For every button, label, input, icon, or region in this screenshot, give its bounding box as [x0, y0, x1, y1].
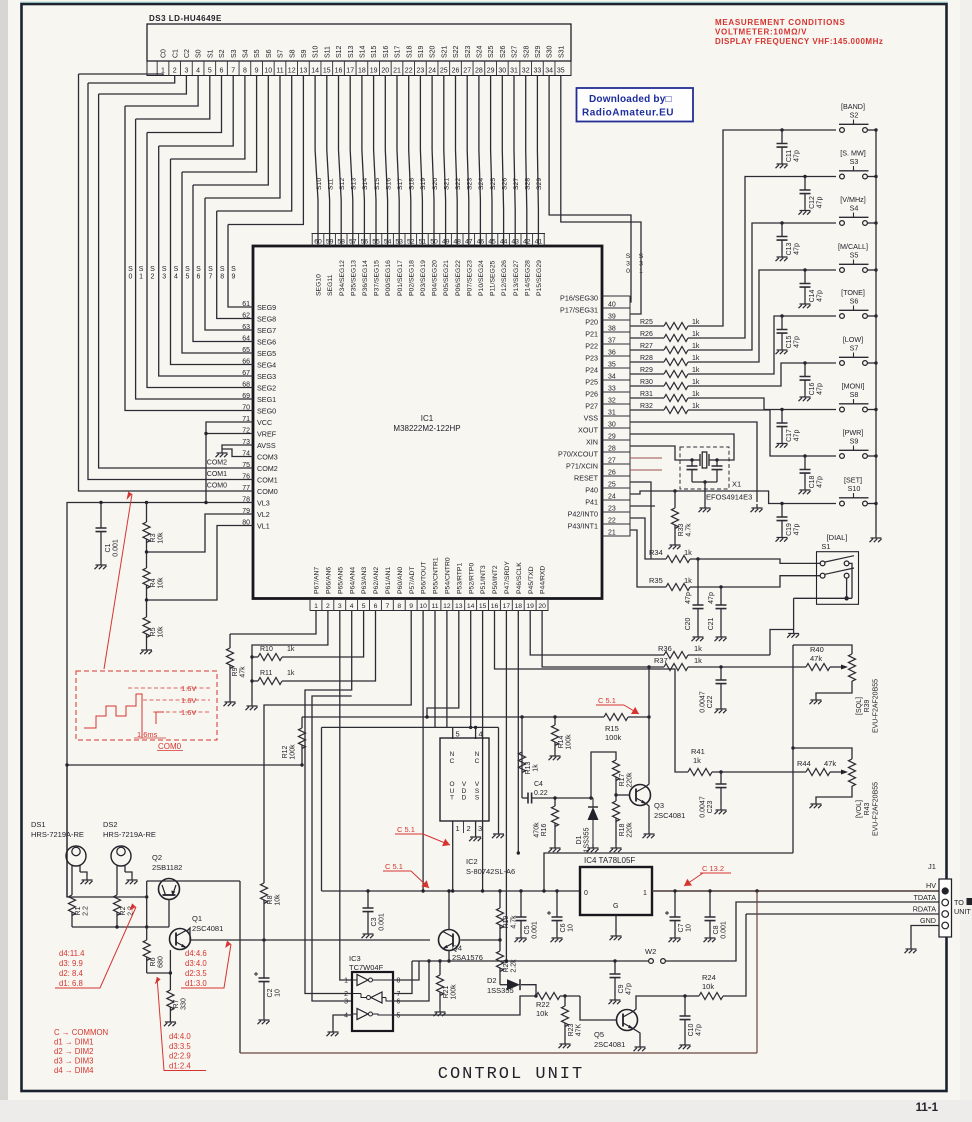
- svg-text:R29: R29: [640, 367, 653, 374]
- svg-text:1k: 1k: [287, 670, 295, 677]
- wire R25 to S2: [688, 130, 836, 326]
- svg-text:S9: S9: [301, 49, 308, 58]
- resistor R24 10k: [685, 995, 699, 997]
- LCD pin cell divider: [554, 61, 556, 76]
- svg-text:d2:3.5: d2:3.5: [185, 969, 207, 978]
- resistor R9 47k: [229, 634, 231, 648]
- svg-text:SEG0: SEG0: [257, 407, 276, 416]
- red arrow block2 to Q1 collector: [225, 941, 231, 949]
- svg-text:R13: R13: [525, 761, 532, 774]
- svg-text:DISPLAY FREQUENCY VHF:145.000M: DISPLAY FREQUENCY VHF:145.000MHz: [715, 37, 883, 46]
- svg-text:35: 35: [608, 362, 616, 369]
- svg-text:R8: R8: [267, 895, 274, 904]
- ground Q3: [643, 830, 655, 838]
- svg-text:P71/XCIN: P71/XCIN: [566, 462, 598, 471]
- resistor R16 470k: [554, 798, 556, 806]
- wire S14 bus: [362, 76, 365, 247]
- svg-text:C 5.1: C 5.1: [385, 862, 403, 871]
- svg-text:VSS: VSS: [475, 781, 480, 802]
- svg-text:S14: S14: [362, 178, 369, 190]
- ground R7: [164, 1018, 176, 1026]
- svg-text:S31: S31: [558, 45, 565, 58]
- svg-text:VL1: VL1: [257, 522, 270, 531]
- resistor R12 100k: [302, 716, 310, 718]
- wire S11 bus: [327, 76, 330, 247]
- wire C4 branch vertical: [521, 717, 523, 798]
- wire S20 bus: [432, 76, 434, 247]
- svg-text:P24: P24: [585, 366, 598, 375]
- resistor R22 10k: [536, 993, 560, 1000]
- wire AVSS: [222, 445, 253, 449]
- transistor Q4 2SA1576: [439, 930, 460, 951]
- ground R16: [549, 844, 561, 852]
- svg-text:1k: 1k: [694, 644, 702, 653]
- svg-text:100k: 100k: [566, 734, 573, 750]
- svg-text:19: 19: [370, 67, 378, 74]
- COM rail y765: [67, 764, 302, 766]
- svg-text:37: 37: [608, 338, 616, 345]
- switch S1 arms: [825, 556, 854, 562]
- svg-text:P10/SEG24: P10/SEG24: [478, 260, 485, 296]
- svg-text:SEG2: SEG2: [257, 384, 276, 393]
- svg-text:39: 39: [608, 314, 616, 321]
- wire pin1 to R9: [230, 611, 316, 635]
- ground J1: [905, 945, 917, 953]
- bottom return rail: [240, 1052, 757, 1054]
- node VDD rail junction: [481, 889, 484, 892]
- svg-text:R12: R12: [282, 745, 289, 758]
- LCD pin cell divider: [531, 61, 533, 76]
- svg-text:R40: R40: [810, 645, 824, 654]
- svg-text:47p: 47p: [794, 243, 801, 255]
- svg-text:10: 10: [264, 67, 272, 74]
- wire DS2 left leg to R2: [116, 872, 118, 895]
- wire R28 to S5: [688, 270, 836, 362]
- wire pin19 to R36: [530, 611, 664, 656]
- svg-text:S2: S2: [150, 266, 155, 280]
- wire R10 to pin5: [282, 611, 364, 658]
- svg-text:C2: C2: [267, 988, 274, 997]
- capacitor C12 47p: [803, 175, 806, 178]
- svg-text:P12/SEG26: P12/SEG26: [501, 260, 508, 296]
- svg-text:C16: C16: [809, 382, 816, 395]
- capacitor C22 0.0047: [720, 667, 722, 680]
- LCD pin cell divider: [402, 61, 404, 76]
- ground R18: [610, 844, 622, 852]
- wire R11 to pin6: [282, 611, 376, 682]
- node Q3 collector junction: [647, 665, 650, 668]
- IC2 pin2 ground lead: [475, 821, 477, 833]
- svg-text:P55/CNTR1: P55/CNTR1: [433, 557, 440, 594]
- waveform staircase: [84, 694, 164, 738]
- svg-text:S21: S21: [443, 178, 450, 190]
- IC1 right pin cell strip: [629, 296, 631, 537]
- svg-text:GND: GND: [920, 916, 936, 925]
- svg-text:3: 3: [338, 603, 342, 610]
- ground C11: [776, 160, 788, 168]
- svg-text:d1: 6.8: d1: 6.8: [59, 979, 83, 988]
- svg-text:R17: R17: [619, 773, 626, 786]
- ground C10: [679, 1041, 691, 1049]
- svg-text:12: 12: [443, 603, 451, 610]
- svg-text:S15: S15: [374, 178, 381, 190]
- svg-text:35: 35: [557, 67, 565, 74]
- svg-text:C 5.1: C 5.1: [397, 825, 415, 834]
- svg-text:1k: 1k: [692, 391, 700, 398]
- svg-text:47p: 47p: [794, 524, 801, 536]
- svg-text:47p: 47p: [817, 383, 824, 395]
- svg-text:S9: S9: [850, 437, 859, 446]
- svg-text:5: 5: [456, 730, 460, 739]
- node R19/R20 junction: [498, 938, 501, 941]
- svg-text:P23: P23: [585, 354, 598, 363]
- wire LCD pin 12 (S8) staircase: [217, 76, 292, 212]
- ground C23: [715, 806, 727, 814]
- wire LCD pin 2 (C1) staircase: [88, 76, 175, 84]
- node rail A C4 branch junction: [520, 715, 523, 718]
- svg-text:P63/AN3: P63/AN3: [361, 567, 368, 594]
- LCD pin cell divider: [180, 61, 182, 76]
- svg-text:1: 1: [643, 890, 647, 897]
- svg-text:S10: S10: [313, 45, 320, 58]
- svg-text:XOUT: XOUT: [578, 426, 599, 435]
- svg-text:COM2: COM2: [257, 464, 278, 473]
- svg-text:16: 16: [491, 603, 499, 610]
- transistor Q1 2SC4081: [170, 929, 191, 950]
- LCD pin cell divider: [215, 61, 217, 76]
- svg-text:VDD: VDD: [462, 781, 467, 802]
- LCD pin cell divider: [203, 61, 205, 76]
- svg-text:P40: P40: [585, 486, 598, 495]
- wire R37 to R40: [688, 666, 806, 668]
- wire DS2 right leg to ground: [125, 872, 132, 876]
- wire pin4 to IC3 pin2: [305, 611, 352, 994]
- svg-text:[DIAL]: [DIAL]: [827, 533, 848, 542]
- svg-text:d2:2.9: d2:2.9: [169, 1052, 191, 1061]
- svg-text:47k: 47k: [824, 759, 836, 768]
- IC1 bottom pin number strip: [310, 610, 549, 612]
- svg-text:R2: R2: [120, 906, 127, 915]
- wire P70/XCOUT stub: [630, 457, 662, 459]
- transistor Q3 2SC4081: [630, 785, 651, 806]
- svg-text:S4: S4: [174, 266, 179, 280]
- resistor R19 4.7k: [499, 891, 501, 908]
- wire pin2 nest: [252, 611, 328, 703]
- svg-text:d3:4.0: d3:4.0: [185, 959, 207, 968]
- wire IC2 pin5 lead: [452, 727, 454, 739]
- svg-text:C5: C5: [524, 925, 531, 934]
- IC3 inverter 3: [357, 1009, 368, 1020]
- svg-text:20: 20: [381, 67, 389, 74]
- svg-text:2SC4081: 2SC4081: [654, 811, 685, 820]
- svg-text:d1:2.4: d1:2.4: [169, 1061, 191, 1070]
- LCD pin cell divider: [250, 61, 252, 76]
- capacitor C5 0.001: [520, 891, 522, 917]
- wire Q4 collector to rail: [448, 891, 450, 930]
- svg-text:23: 23: [608, 506, 616, 513]
- node S8 rail junction: [874, 408, 877, 411]
- svg-text:1.6V: 1.6V: [181, 684, 196, 693]
- node VDD rail junction: [451, 889, 454, 892]
- svg-text:R31: R31: [640, 391, 653, 398]
- svg-text:C 13.2: C 13.2: [702, 864, 724, 873]
- svg-text:13: 13: [455, 603, 463, 610]
- svg-text:R39: R39: [864, 699, 871, 712]
- node rail A R14 junction: [553, 715, 556, 718]
- wire LCD pin 11 (S7) staircase: [205, 76, 280, 199]
- svg-text:R43: R43: [864, 802, 871, 815]
- wire pin3 to IC3 pin1: [340, 611, 352, 981]
- wire VCC/VREF: [206, 422, 253, 503]
- resistor R30 1k: [630, 385, 664, 387]
- resistor R13 1k: [519, 752, 526, 772]
- svg-text:34: 34: [608, 374, 616, 381]
- svg-text:1: 1: [456, 824, 460, 833]
- resistor R34 1k: [630, 518, 666, 559]
- svg-text:R28: R28: [640, 355, 653, 362]
- resistor R1 2.2: [69, 895, 76, 915]
- wire S5 to SEG5: [182, 172, 253, 353]
- wire XIN to crystal: [630, 446, 690, 460]
- capacitor C1 0.001: [100, 503, 102, 529]
- node pin14 net junction: [469, 726, 472, 729]
- svg-text:24: 24: [608, 494, 616, 501]
- svg-text:P43/INT1: P43/INT1: [568, 522, 598, 531]
- ground pin2 nest: [246, 702, 258, 710]
- svg-text:R9: R9: [232, 667, 239, 676]
- svg-text:8: 8: [397, 978, 401, 985]
- node R15 right junction: [647, 715, 650, 718]
- resistor R5 10k: [146, 600, 148, 617]
- svg-text:C11: C11: [786, 150, 793, 162]
- svg-text:28: 28: [608, 446, 616, 453]
- wire S29 bus: [537, 76, 538, 247]
- svg-text:d4:4.6: d4:4.6: [185, 949, 207, 958]
- svg-text:C2: C2: [184, 49, 191, 58]
- resistor R40 47k: [806, 664, 830, 671]
- svg-text:d3: 9.9: d3: 9.9: [59, 959, 83, 968]
- capacitor C15 47p: [780, 314, 783, 317]
- svg-text:P16/SEG30: P16/SEG30: [560, 294, 598, 303]
- svg-text:S28: S28: [523, 45, 530, 58]
- svg-text:16: 16: [335, 67, 343, 74]
- potentiometer R39 EVU-F2AF20B55: [849, 654, 856, 681]
- svg-text:4: 4: [479, 730, 483, 739]
- svg-text:11: 11: [431, 603, 438, 610]
- node VREF junction: [204, 432, 207, 435]
- wire S8 right to rail: [867, 409, 876, 411]
- capacitor C14 47p: [803, 268, 806, 271]
- svg-text:1k: 1k: [684, 576, 692, 585]
- svg-text:P46/SCLK: P46/SCLK: [516, 562, 523, 594]
- ground C9: [609, 996, 621, 1004]
- svg-text:SEG1: SEG1: [257, 395, 276, 404]
- svg-text:C0: C0: [161, 49, 168, 58]
- LCD pin cell divider: [425, 61, 427, 76]
- IC3 inverter 2 (reversed): [371, 992, 382, 1003]
- rail A horizontal: [310, 716, 604, 718]
- wire P41 stub: [630, 505, 655, 507]
- svg-text:G: G: [613, 903, 618, 910]
- svg-text:6: 6: [397, 999, 401, 1006]
- ground C7: [669, 934, 681, 942]
- ground R14: [549, 752, 561, 760]
- node S5 rail junction: [874, 268, 877, 271]
- svg-text:S13: S13: [351, 178, 358, 190]
- ground C21: [715, 633, 727, 641]
- wire pin14 to IC2 net: [470, 611, 472, 728]
- wire R24 to RDATA: [723, 914, 746, 996]
- svg-text:33: 33: [534, 67, 542, 74]
- ground R5: [140, 646, 152, 654]
- wire S25 bus: [491, 76, 492, 247]
- svg-text:d4:11.4: d4:11.4: [59, 949, 85, 958]
- wire S6 to SEG6: [193, 185, 253, 342]
- svg-text:NC: NC: [450, 751, 455, 765]
- svg-text:26: 26: [608, 470, 616, 477]
- node crystal left: [690, 458, 693, 461]
- svg-text:31: 31: [510, 67, 518, 74]
- svg-text:0.001: 0.001: [532, 921, 539, 939]
- LCD pin cell divider: [390, 61, 392, 76]
- svg-text:10k: 10k: [158, 577, 165, 589]
- node S9 rail junction: [874, 454, 877, 457]
- resistor R29 1k: [630, 373, 664, 375]
- wire S17 bus: [397, 76, 399, 247]
- resistor R4 10k: [146, 552, 148, 568]
- svg-text:P21: P21: [585, 330, 598, 339]
- svg-text:1.6V: 1.6V: [181, 708, 196, 717]
- svg-text:COM1: COM1: [257, 476, 278, 485]
- svg-text:47p: 47p: [696, 1024, 703, 1036]
- svg-text:R35: R35: [649, 576, 663, 585]
- svg-text:UNIT: UNIT: [954, 907, 971, 916]
- svg-text:10: 10: [568, 924, 575, 932]
- svg-text:EFOS4914E3: EFOS4914E3: [706, 493, 752, 502]
- capacitor C18 47p: [803, 454, 806, 457]
- svg-text:S7: S7: [208, 266, 213, 280]
- svg-text:P34/SEG12: P34/SEG12: [339, 260, 346, 296]
- resistor R28 1k: [630, 361, 664, 363]
- svg-text:S15: S15: [371, 45, 378, 58]
- wire IC2 pin1 to VDD rail: [452, 821, 454, 891]
- J1 pin TDATA: [942, 899, 949, 906]
- svg-text:S26: S26: [500, 45, 507, 58]
- svg-text:S17: S17: [397, 178, 404, 190]
- svg-text:24: 24: [428, 67, 436, 74]
- diode D2 1SS355: [500, 984, 507, 986]
- svg-text:P62/AN2: P62/AN2: [373, 567, 380, 594]
- svg-text:5: 5: [208, 67, 212, 74]
- svg-text:S8: S8: [289, 49, 296, 58]
- wire S19 bus: [420, 76, 422, 247]
- LCD pin cell divider: [507, 61, 509, 76]
- node S2 rail junction: [874, 128, 877, 131]
- svg-text:S5: S5: [850, 251, 859, 260]
- ground C14: [799, 300, 811, 308]
- wire crystal bottom: [692, 481, 717, 483]
- node S6 rail junction: [874, 314, 877, 317]
- op-amp IC1 M38222M2-122HP body: [253, 246, 602, 599]
- wire S9 to SEG9: [228, 225, 253, 308]
- resistor R6 680: [143, 940, 150, 960]
- svg-text:S30: S30: [547, 45, 554, 58]
- wire C0 to COM0: [79, 74, 254, 491]
- ground C13: [776, 253, 788, 261]
- svg-text:R24: R24: [702, 973, 716, 982]
- svg-text:R32: R32: [640, 403, 653, 410]
- node R6/R7 junction: [169, 971, 172, 974]
- svg-text:S17: S17: [395, 45, 402, 58]
- node IC2 pin4 junction: [474, 726, 477, 729]
- svg-text:S11: S11: [327, 178, 334, 190]
- node R23 top junction: [563, 994, 566, 997]
- svg-text:29: 29: [608, 434, 616, 441]
- svg-text:1k: 1k: [287, 646, 295, 653]
- svg-text:P03/SEG19: P03/SEG19: [420, 260, 427, 296]
- LCD pin cell divider: [484, 61, 486, 76]
- node lamp-base junction: [145, 895, 148, 898]
- svg-text:23: 23: [417, 67, 425, 74]
- ground C1: [95, 561, 107, 569]
- svg-text:S24: S24: [477, 45, 484, 58]
- node VDD rail junction: [519, 889, 522, 892]
- wire S21 bus: [444, 76, 446, 247]
- svg-text:P20: P20: [585, 318, 598, 327]
- node S3 rail junction: [874, 175, 877, 178]
- node IC3 pin6 junction: [427, 959, 430, 962]
- svg-text:S13: S13: [348, 45, 355, 58]
- LCD pin cell divider: [226, 61, 228, 76]
- wire C1 to COM1: [88, 83, 253, 480]
- svg-text:5: 5: [397, 1013, 401, 1020]
- svg-text:P65/AN5: P65/AN5: [337, 567, 344, 594]
- wire S3 right to rail: [867, 176, 876, 178]
- svg-text:EVU-F2AF20B55: EVU-F2AF20B55: [873, 782, 880, 836]
- svg-text:S16: S16: [385, 178, 392, 190]
- svg-text:Q5: Q5: [594, 1030, 604, 1039]
- svg-text:d3:3.5: d3:3.5: [169, 1042, 191, 1051]
- svg-text:10: 10: [686, 924, 693, 932]
- op-amp IC2 S-80742SL-A6 body: [440, 738, 489, 821]
- svg-text:S4: S4: [850, 204, 859, 213]
- svg-text:2: 2: [344, 991, 348, 998]
- lamp DS2: [111, 846, 131, 866]
- svg-text:S7: S7: [278, 49, 285, 58]
- wire Q5 collector: [633, 996, 685, 1012]
- svg-text:8: 8: [397, 603, 401, 610]
- svg-text:d2 → DIM2: d2 → DIM2: [54, 1047, 93, 1056]
- LCD pin cell divider: [320, 61, 322, 76]
- wire pin15 down: [482, 611, 484, 892]
- wire Q1 collector line: [187, 928, 430, 940]
- svg-text:P04/SEG20: P04/SEG20: [432, 260, 439, 296]
- wire S12 bus: [339, 76, 342, 247]
- svg-text:R11: R11: [260, 670, 272, 677]
- switch rail vertical: [875, 130, 877, 534]
- svg-text:4: 4: [196, 67, 200, 74]
- wire VSS to ground: [630, 422, 757, 502]
- svg-text:8: 8: [243, 67, 247, 74]
- svg-text:32: 32: [608, 398, 616, 405]
- node C23 junction: [719, 770, 722, 773]
- svg-text:0.22: 0.22: [534, 790, 548, 797]
- switch S1 contacts: [820, 561, 825, 566]
- wire LCD pin 4 (S0) staircase: [125, 76, 198, 107]
- svg-text:12: 12: [288, 67, 296, 74]
- J1 pin RDATA: [942, 911, 949, 918]
- svg-text:P36/SEG14: P36/SEG14: [362, 260, 369, 296]
